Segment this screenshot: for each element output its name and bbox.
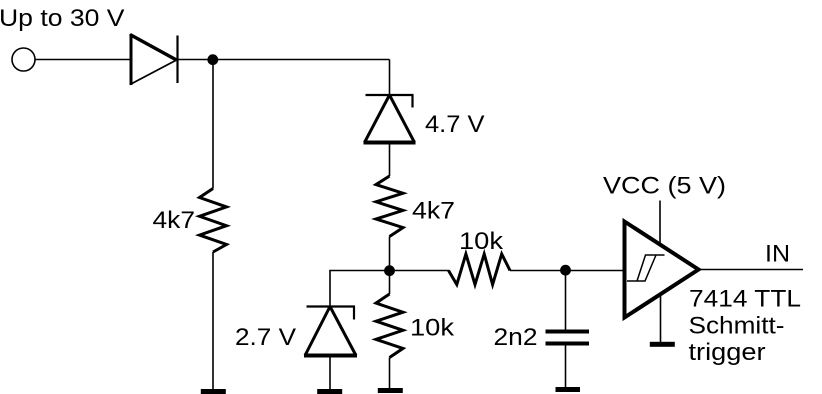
wire node B left then down to zener D3 [330,271,390,307]
wire D2 to R2 [389,143,391,177]
node B junction dot [384,265,395,276]
resistor R4 10k [449,254,511,285]
svg-text:2n2: 2n2 [494,324,538,351]
svg-text:IN: IN [765,241,790,268]
svg-text:VCC (5 V): VCC (5 V) [603,172,726,199]
capacitor C1 2n2 [546,332,590,344]
ground G3 [378,388,403,393]
wire R4 to gate input [510,270,625,272]
svg-text:4.7 V: 4.7 V [425,111,485,138]
svg-text:Schmitt-: Schmitt- [689,313,785,340]
svg-text:10k: 10k [410,315,455,342]
svg-text:Up to 30 V: Up to 30 V [0,5,125,32]
node C junction dot [560,265,571,276]
wire node A down to R1 [212,60,214,189]
wire node B down to R3 [389,271,391,295]
ground G2 [317,389,342,394]
wire C1 to ground [565,346,567,389]
node A junction dot [207,54,218,65]
ground G1 [201,389,226,394]
wire D3 to ground [329,356,331,390]
resistor R1 4k7 [200,189,227,253]
svg-text:4k7: 4k7 [412,197,455,224]
svg-text:trigger: trigger [689,339,766,366]
ground G5 [650,342,675,347]
wire R3 to ground [389,358,391,390]
hysteresis symbol of U1 [627,255,665,281]
input terminal [12,48,35,71]
svg-text:2.7 V: 2.7 V [235,324,296,351]
wire node B to R4 [390,270,450,272]
wire gate to ground [660,294,662,342]
diode D1 [130,34,178,85]
wire corner down to zener D2 [389,60,391,96]
resistor R3 10k [376,294,403,358]
output wire IN [699,269,804,271]
wire R1 to ground [212,252,214,389]
inverter U1 7414 Schmitt trigger [625,222,699,318]
wire terminal to diode [35,59,130,61]
wire node C down to C1 [565,271,567,331]
wire VCC to gate [659,201,661,246]
svg-text:4k7: 4k7 [153,207,196,234]
ground G4 [556,387,581,392]
resistor R2 4k7 [376,176,403,237]
zener diode D3 [304,307,357,356]
zener diode D2 [364,95,416,143]
wire diode to corner (top rail) [178,59,390,61]
wire R2 to node B [389,237,391,271]
svg-text:7414 TTL: 7414 TTL [689,285,801,312]
svg-text:10k: 10k [459,228,504,255]
